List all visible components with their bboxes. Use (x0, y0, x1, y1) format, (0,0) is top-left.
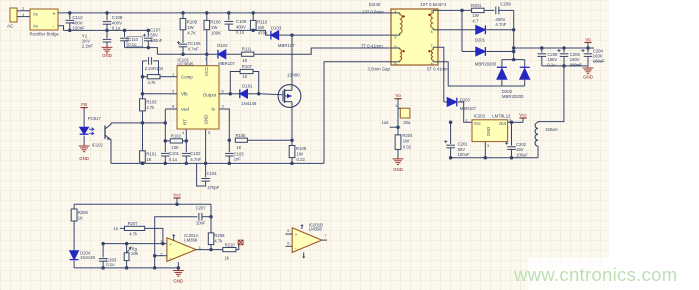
wire comp feedback left (142, 61, 144, 94)
svg-text:Vref: Vref (181, 107, 190, 112)
wire vertical pin2-branch (461, 10, 463, 51)
op-amp IC101 UC3845 (177, 66, 219, 129)
svg-text:0.1u: 0.1u (128, 42, 137, 47)
diode D101 (230, 93, 240, 95)
svg-text:D103: D103 (271, 26, 282, 31)
wire R108 to ground rail (291, 158, 293, 164)
pin 7 VCC drop (206, 54, 208, 65)
svg-text:C207: C207 (196, 205, 207, 210)
svg-text:3: 3 (394, 34, 396, 39)
svg-text:EI240: EI240 (369, 2, 381, 7)
svg-text:Vcc: Vcc (173, 192, 181, 197)
svg-text:2: 2 (431, 9, 433, 14)
svg-text:UC3845: UC3845 (177, 61, 194, 66)
resistor R104 (143, 76, 148, 78)
svg-text:R110: R110 (257, 20, 268, 25)
svg-text:R103: R103 (146, 99, 157, 104)
wire drain to transformer pin3 (292, 34, 391, 36)
pin 3 Is (219, 109, 229, 140)
diode D201 upper (438, 29, 476, 31)
svg-text:D201: D201 (475, 37, 486, 42)
wire output ground line (542, 65, 588, 67)
svg-text:3.5mm Gap: 3.5mm Gap (368, 67, 391, 72)
wire Vcc node (125, 48, 219, 55)
svg-text:4.7: 4.7 (472, 18, 479, 23)
svg-text:1: 1 (172, 71, 174, 76)
svg-text:MBR107: MBR107 (278, 43, 295, 48)
svg-text:100nF: 100nF (150, 38, 162, 43)
svg-text:GND: GND (173, 278, 183, 283)
svg-text:R210: R210 (225, 243, 236, 248)
svg-text:10: 10 (242, 58, 247, 63)
potentiometer Rg (125, 242, 129, 246)
diode D102 (218, 50, 226, 59)
svg-text:12N90: 12N90 (287, 72, 300, 77)
resistor R110 (252, 13, 254, 21)
svg-text:0.1u: 0.1u (547, 62, 556, 67)
svg-text:4.7nF: 4.7nF (495, 22, 506, 27)
svg-text:3: 3 (487, 143, 489, 148)
resistor R208 (208, 233, 214, 245)
capacitor C107 (144, 37, 153, 39)
wire aux ground rail (451, 157, 538, 159)
capacitor C102 (185, 141, 187, 152)
svg-text:1W: 1W (297, 151, 304, 156)
svg-text:0.1u: 0.1u (169, 157, 178, 162)
capacitor C112 (69, 13, 71, 19)
svg-text:10: 10 (242, 74, 247, 79)
svg-text:160uF: 160uF (593, 59, 605, 64)
svg-text:C102: C102 (190, 151, 201, 156)
svg-text:1nF: 1nF (234, 157, 242, 162)
svg-text:7: 7 (324, 233, 326, 238)
resistor R102 (170, 139, 182, 143)
svg-text:+: + (295, 234, 298, 239)
op-amp IC201B LM358 (292, 228, 322, 253)
resistor R204 (397, 127, 399, 135)
wire snubber down (513, 10, 515, 59)
rectifier bridge (30, 9, 58, 30)
wire R111 to aux winding pin5 (254, 48, 391, 54)
capacitor C103 (228, 138, 232, 142)
wire bottom ground rail (74, 267, 178, 269)
svg-text:470pF: 470pF (207, 185, 219, 190)
svg-text:5: 5 (208, 130, 210, 135)
capacitor C206 (563, 48, 565, 53)
svg-text:GND: GND (79, 156, 89, 161)
aux winding pins 5-6 (391, 47, 400, 49)
svg-text:0.02: 0.02 (403, 144, 412, 149)
svg-text:R201: R201 (471, 3, 482, 8)
wire D102 to R111 (226, 53, 242, 55)
svg-text:100uF: 100uF (516, 152, 528, 157)
svg-text:D203: D203 (460, 98, 471, 103)
svg-text:R206: R206 (78, 210, 89, 215)
svg-text:LM358: LM358 (184, 238, 198, 243)
svg-text:1K: 1K (146, 157, 151, 162)
resistor R106 (206, 13, 208, 21)
op-amp A power stub (173, 235, 175, 241)
svg-text:GND: GND (583, 75, 593, 80)
svg-text:R107: R107 (242, 64, 253, 69)
svg-text:R108: R108 (296, 146, 307, 151)
svg-text:Rectifier Bridge: Rectifier Bridge (30, 31, 60, 36)
svg-text:1W: 1W (403, 139, 409, 144)
pin 5 stub (285, 233, 292, 235)
svg-text:PC817: PC817 (88, 116, 101, 121)
resistor R109 (182, 13, 184, 19)
svg-text:VCC: VCC (204, 67, 209, 76)
svg-text:4.7nF: 4.7nF (188, 46, 199, 51)
power flag Vo output (584, 41, 591, 43)
svg-text:+: + (169, 243, 172, 248)
resistor R210 (223, 248, 236, 252)
diode D103 (271, 31, 279, 40)
svg-text:Comp: Comp (181, 75, 193, 80)
svg-text:AC: AC (7, 24, 14, 29)
svg-text:-: - (295, 245, 297, 251)
svg-text:R109: R109 (187, 20, 198, 25)
svg-text:Ac: Ac (33, 12, 39, 17)
wire primary return rail (64, 29, 149, 31)
wire clamp node (229, 30, 271, 35)
svg-text:GND: GND (204, 115, 209, 125)
secondary winding pins 2-4 (433, 9, 438, 11)
pin 2 stub Vfb (169, 93, 177, 95)
transistor Q1 12N90 (278, 85, 301, 108)
svg-text:5: 5 (287, 228, 289, 233)
svg-text:R106: R106 (210, 20, 221, 25)
svg-text:1: 1 (466, 117, 468, 122)
output winding pins 7-8 (433, 46, 438, 48)
wire source (291, 102, 293, 141)
svg-text:Vfb: Vfb (181, 92, 188, 97)
pin 7 stub (322, 239, 327, 241)
pin 6 stub (285, 245, 292, 247)
capacitor 2.2n comp (143, 60, 148, 62)
wire R207 to noninverting input (145, 228, 163, 243)
wire AC pin2 to bridge (17, 10, 30, 12)
wire bridge minus output (58, 26, 64, 31)
svg-text:30a: 30a (403, 120, 411, 125)
svg-text:2.2nF: 2.2nF (82, 44, 94, 49)
power flag FB (81, 107, 88, 109)
wire drain (291, 35, 293, 90)
svg-text:MBR20200: MBR20200 (502, 94, 524, 99)
capacitor TC106 (179, 43, 188, 45)
ground below Y1 (106, 46, 108, 48)
primary winding pins 1-3 (391, 12, 400, 14)
svg-text:R105: R105 (236, 133, 247, 138)
resistor R111 (242, 52, 254, 56)
connector J output (400, 108, 410, 118)
no-connect marker (238, 240, 243, 245)
svg-text:1u5: 1u5 (382, 120, 390, 125)
svg-text:1: 1 (395, 103, 397, 108)
svg-text:0.22: 0.22 (297, 157, 306, 162)
svg-text:100K: 100K (211, 30, 221, 35)
wire Vcc rail to R208 (210, 204, 212, 233)
wire R210 to no-connect (236, 245, 239, 250)
svg-text:R204: R204 (402, 133, 413, 138)
svg-text:R111: R111 (242, 47, 252, 52)
power flag Vo shunt (394, 98, 401, 100)
wire inverting feedback (155, 217, 198, 256)
wire primary ground rail (111, 162, 324, 164)
capacitor Y1 (106, 30, 108, 38)
wire shunt tap 1u5 (390, 126, 398, 128)
svg-text:D102: D102 (217, 43, 228, 48)
svg-text:7T 0.41mm: 7T 0.41mm (361, 43, 383, 48)
capacitor C109 (228, 13, 230, 20)
wire D202 anodes to pin8 (438, 62, 525, 86)
capacitor C202 (511, 122, 513, 145)
svg-text:R101: R101 (146, 151, 157, 156)
inductor L201 (538, 66, 564, 123)
svg-text:IC202: IC202 (474, 113, 486, 118)
svg-text:4.7k: 4.7k (214, 239, 223, 244)
svg-text:GND: GND (393, 167, 403, 172)
svg-text:Vcc: Vcc (474, 121, 481, 126)
svg-text:GND: GND (486, 127, 491, 136)
svg-text:1W: 1W (258, 25, 265, 30)
svg-text:8: 8 (431, 61, 433, 66)
op-amp IC202 LM78L12 (472, 120, 508, 142)
capacitor C209 (484, 9, 494, 11)
pin 5 GND drop (205, 129, 207, 163)
resistor R107 (230, 72, 240, 94)
svg-text:+: + (53, 12, 56, 18)
wire opto collector node (111, 122, 165, 124)
svg-text:Vo: Vo (585, 37, 591, 42)
svg-text:220nF: 220nF (72, 26, 85, 31)
capacitor C101 (164, 141, 166, 152)
pin 6 Output (219, 93, 230, 95)
svg-text:1: 1 (199, 245, 201, 250)
svg-text:D101: D101 (242, 83, 253, 88)
pin 1 stub Comp (169, 76, 177, 78)
wire gate line (259, 94, 283, 95)
svg-text:1W: 1W (211, 25, 218, 30)
watermark band (528, 258, 609, 290)
svg-text:6: 6 (287, 241, 289, 246)
capacitor C110 (124, 30, 126, 37)
ground output (587, 67, 589, 69)
svg-text:7: 7 (431, 43, 433, 48)
wire op-amp noninverting line (103, 243, 167, 245)
ground below R204 (397, 149, 399, 157)
svg-text:4.7k: 4.7k (129, 232, 138, 237)
svg-text:3: 3 (160, 239, 162, 244)
svg-text:6: 6 (394, 61, 396, 66)
resistor R206 (73, 204, 75, 209)
svg-text:R208: R208 (214, 233, 225, 238)
ground below opto LED (83, 145, 85, 147)
capacitor C208 (541, 48, 543, 53)
capacitor C104 (204, 162, 208, 166)
wire AC pin1 to bridge (17, 16, 30, 18)
svg-text:5T 0.41mm: 5T 0.41mm (427, 67, 449, 72)
wire ground return to aux winding pin6 (324, 62, 391, 164)
wire to C107 top (147, 30, 149, 37)
svg-text:IC102: IC102 (92, 142, 104, 147)
svg-text:5: 5 (394, 44, 396, 49)
svg-text:RT: RT (183, 119, 188, 125)
svg-text:400V: 400V (495, 17, 505, 22)
capacitor C108 (106, 13, 108, 20)
svg-text:1u: 1u (113, 226, 118, 231)
svg-text:0.1u: 0.1u (106, 262, 115, 267)
wire inverting input (155, 255, 167, 257)
svg-text:Ac: Ac (33, 24, 39, 29)
svg-text:R207: R207 (128, 221, 139, 226)
svg-text:6: 6 (222, 89, 224, 94)
svg-text:7: 7 (205, 57, 207, 62)
svg-text:1N4148: 1N4148 (241, 101, 257, 106)
svg-text:0.1u: 0.1u (112, 26, 121, 31)
opto arrows (89, 128, 94, 131)
svg-text:10T 0.5mm*4: 10T 0.5mm*4 (421, 2, 447, 7)
svg-text:-: - (170, 255, 172, 261)
pin 8 stub Vref (165, 108, 177, 110)
resistor R108 (291, 140, 293, 145)
svg-text:Output: Output (203, 92, 217, 97)
svg-text:LM358: LM358 (309, 227, 323, 232)
svg-text:220uF: 220uF (570, 62, 582, 67)
resistor R201 (472, 8, 485, 12)
wire pin2 to snubber (438, 9, 472, 11)
svg-text:C209: C209 (500, 1, 511, 6)
capacitor C201 (449, 121, 453, 125)
wire output rail Vo (514, 47, 594, 49)
svg-text:3: 3 (222, 104, 224, 109)
svg-text:100uF: 100uF (458, 152, 470, 157)
capacitor C203 (101, 242, 105, 246)
svg-text:Out: Out (499, 121, 507, 126)
svg-text:10K: 10K (131, 251, 139, 256)
svg-text:20nF: 20nF (196, 221, 206, 226)
diode D203 (444, 101, 447, 103)
wire Vfb line (143, 93, 170, 95)
resistor R101 (142, 123, 144, 151)
wire pin7 to D203 (438, 47, 444, 102)
svg-text:C104: C104 (207, 171, 218, 176)
svg-text:FB: FB (81, 102, 87, 107)
svg-text:MBR107: MBR107 (218, 61, 235, 66)
svg-text:1K: 1K (236, 145, 241, 150)
svg-text:4.7k: 4.7k (148, 80, 157, 85)
wire op-amp output (196, 249, 223, 251)
resistor R103 (142, 94, 144, 99)
diode D201 lower (462, 51, 476, 53)
transformer T1 EI240 (391, 9, 438, 65)
pin 4 RT drop (185, 129, 187, 141)
svg-text:GND: GND (102, 53, 112, 58)
svg-text:2: 2 (172, 89, 174, 94)
wire DC+ top rail (58, 12, 391, 14)
wire IC202 out (508, 121, 523, 123)
resistor R105 (235, 138, 247, 142)
resistor R207 (125, 226, 145, 230)
svg-text:R102: R102 (171, 133, 182, 138)
svg-text:150uH: 150uH (545, 127, 558, 132)
svg-text:1: 1 (394, 9, 396, 14)
svg-text:MBR107: MBR107 (460, 106, 477, 111)
op-amp B power stubs (301, 225, 303, 229)
svg-text:www.cntronics.com: www.cntronics.com (513, 264, 677, 285)
svg-text:1W: 1W (472, 13, 479, 18)
svg-text:MBR20200: MBR20200 (475, 61, 497, 66)
wire Vcc rail bottom (74, 203, 211, 205)
power flag Vcc secondary (519, 117, 526, 119)
svg-text:1K: 1K (78, 216, 83, 221)
svg-text:1N4148: 1N4148 (80, 255, 95, 260)
wire current sense line (247, 139, 292, 141)
op-amp A ground pin (177, 262, 179, 268)
diode D204 (73, 221, 75, 251)
svg-text:8: 8 (172, 104, 174, 109)
op-amp IC201A LM358 (167, 238, 196, 262)
svg-text:4.7k: 4.7k (146, 105, 155, 110)
capacitor C207 (198, 213, 200, 221)
capacitor C204 (587, 48, 589, 53)
connector AC (10, 8, 17, 22)
svg-text:4.7K: 4.7K (187, 30, 196, 35)
diode D202 pair (501, 60, 503, 68)
svg-text:R104: R104 (153, 66, 164, 71)
svg-text:13T 0.5mm: 13T 0.5mm (362, 10, 384, 15)
opto phototransistor (104, 126, 106, 139)
svg-text:4.7nF: 4.7nF (190, 157, 201, 162)
svg-text:10K: 10K (171, 145, 179, 150)
svg-text:1W: 1W (187, 25, 194, 30)
svg-text:C101: C101 (169, 151, 180, 156)
power flag Vcc bottom (173, 197, 180, 199)
svg-text:Vo: Vo (395, 93, 401, 98)
svg-text:Vcc: Vcc (519, 112, 527, 117)
wire Vref node (165, 109, 170, 141)
wire IC202 gnd pin (484, 142, 486, 158)
